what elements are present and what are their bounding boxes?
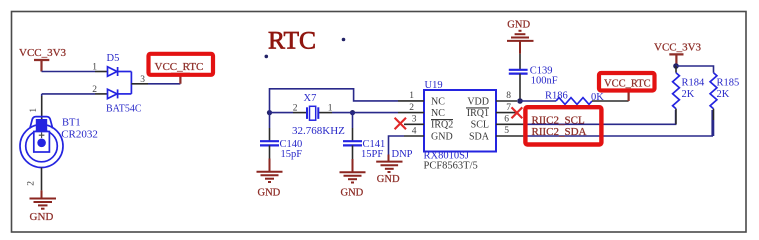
svg-text:3: 3 xyxy=(140,75,145,85)
svg-text:2: 2 xyxy=(409,103,414,113)
wire C140 to ground xyxy=(269,145,271,158)
pin 3 stub xyxy=(404,123,424,125)
resistor R186 xyxy=(556,98,592,105)
wire right node to U19 pin2 xyxy=(353,112,399,114)
crystal pin 2 stub xyxy=(293,112,307,114)
overbar IRQ2 xyxy=(431,119,453,121)
power port VCC_RTC (right) xyxy=(622,91,637,101)
net wire RIIC2_SDA xyxy=(523,110,712,136)
wire top gnd to C139 xyxy=(519,54,521,70)
U19 IC body xyxy=(424,90,496,152)
svg-text:VCC_RTC: VCC_RTC xyxy=(155,61,204,73)
crystal net: left junction node xyxy=(267,110,272,115)
wire pin4 to ground xyxy=(389,136,405,155)
power port VCC_3V3 (right) xyxy=(669,54,683,66)
battery center dot xyxy=(37,139,46,148)
R185 lead to SDA xyxy=(713,120,715,136)
pin 6 stub xyxy=(496,123,523,125)
wire pin3 to VCC_RTC xyxy=(148,83,180,85)
wire R186 to VCC_RTC xyxy=(592,100,629,102)
junction node pin8/C139 xyxy=(517,98,523,104)
pin 8 stub xyxy=(496,100,517,102)
junction node VCC rail xyxy=(673,63,679,69)
resistor R184 xyxy=(673,73,680,109)
battery clip (filled) xyxy=(36,119,47,134)
svg-text:2: 2 xyxy=(92,85,97,95)
svg-text:2K: 2K xyxy=(682,89,695,100)
svg-text:2K: 2K xyxy=(717,89,730,100)
red highlight box around RIIC2 labels xyxy=(525,107,601,144)
svg-text:3: 3 xyxy=(412,115,417,125)
svg-text:GND: GND xyxy=(258,187,281,198)
pin 1 stub of D5 xyxy=(95,71,108,73)
svg-text:CR2032: CR2032 xyxy=(61,128,98,140)
svg-text:1: 1 xyxy=(328,104,333,114)
svg-text:VCC_RTC: VCC_RTC xyxy=(604,79,651,90)
svg-text:1: 1 xyxy=(92,63,97,73)
svg-text:RTC: RTC xyxy=(268,26,316,55)
svg-text:GND: GND xyxy=(507,20,530,31)
svg-text:NC: NC xyxy=(431,108,445,119)
svg-text:GND: GND xyxy=(377,174,400,185)
crystal pin 1 stub xyxy=(318,112,332,114)
diode D5 (dual common-cathode BAT54C) xyxy=(108,67,132,99)
wire C141 right node down xyxy=(352,113,354,128)
R185 lower lead xyxy=(713,109,715,120)
wire pin2 to D5 xyxy=(42,93,95,95)
capacitor C141 xyxy=(343,141,362,145)
net wire RIIC2_SCL xyxy=(523,110,675,124)
plus mark xyxy=(39,132,45,138)
svg-text:GND: GND xyxy=(431,131,453,142)
wire C140 left node down xyxy=(269,113,271,128)
svg-text:C140: C140 xyxy=(280,139,303,150)
svg-text:2: 2 xyxy=(27,181,37,186)
pin 5 stub xyxy=(496,135,523,137)
wire left node to crystal xyxy=(270,112,294,114)
svg-text:VDD: VDD xyxy=(467,96,489,107)
pin 4 stub xyxy=(404,135,424,137)
pin 2 stub of D5 xyxy=(95,93,108,95)
svg-text:5: 5 xyxy=(504,126,509,136)
svg-text:7: 7 xyxy=(506,103,511,113)
wire D5 pin2 down to battery xyxy=(41,94,43,96)
svg-text:DNP: DNP xyxy=(392,149,413,160)
inverted ground symbol (top, C139) xyxy=(507,31,534,54)
crystal net: right junction node xyxy=(350,110,355,115)
svg-text:BAT54C: BAT54C xyxy=(106,103,142,114)
svg-text:RIIC2_SDA: RIIC2_SDA xyxy=(532,126,587,138)
svg-text:15pF: 15pF xyxy=(281,149,303,160)
ground symbol (U19 pin4) xyxy=(376,155,402,173)
wire C139 down to pin8 net xyxy=(519,74,521,101)
svg-text:PCF8563T/5: PCF8563T/5 xyxy=(424,161,478,172)
wire VCC rail to R185 xyxy=(676,66,714,73)
capacitor C139 xyxy=(509,70,528,74)
svg-text:8: 8 xyxy=(506,91,511,101)
svg-text:NC: NC xyxy=(431,96,445,107)
R184 lower lead xyxy=(675,109,677,125)
C141 top pin stub xyxy=(352,128,354,141)
svg-text:2: 2 xyxy=(293,104,298,114)
ground symbol (C140) xyxy=(257,159,283,183)
pin 2 stub xyxy=(398,112,424,114)
svg-text:IRQ1: IRQ1 xyxy=(467,108,489,119)
svg-text:1: 1 xyxy=(409,91,414,101)
C140 top pin stub xyxy=(269,128,271,141)
battery pin 1 stub xyxy=(41,96,43,120)
ground symbol (battery) xyxy=(30,190,57,208)
svg-text:VCC_3V3: VCC_3V3 xyxy=(19,47,67,59)
battery contact box xyxy=(34,132,50,153)
ground symbol (C141) xyxy=(340,159,366,183)
bypass wire left node up over crystal to U19 pin1 xyxy=(270,89,399,113)
resistor R185 xyxy=(710,73,717,109)
svg-text:C141: C141 xyxy=(363,139,386,150)
wire crystal to right node xyxy=(332,112,353,114)
svg-text:6: 6 xyxy=(504,114,509,124)
U19 pin names xyxy=(431,96,490,142)
wire pin8 node to R186 xyxy=(520,100,556,102)
stray junction dot xyxy=(265,55,269,59)
svg-text:15PF: 15PF xyxy=(361,149,383,160)
red highlight box around VCC_RTC xyxy=(149,54,214,75)
capacitor C140 xyxy=(260,141,279,145)
wire C141 to ground xyxy=(352,145,354,159)
svg-text:32.768KHZ: 32.768KHZ xyxy=(292,125,345,137)
svg-text:1: 1 xyxy=(29,108,39,113)
stray junction dot xyxy=(342,38,346,42)
wire VCC node down to R184 xyxy=(675,66,677,73)
svg-text:GND: GND xyxy=(30,211,54,223)
wire pin1 to D5 xyxy=(42,71,96,73)
svg-text:IRQ2: IRQ2 xyxy=(431,120,453,131)
power port VCC_3V3 (left) xyxy=(34,60,49,72)
crystal X7 xyxy=(307,106,318,120)
wire battery to GND xyxy=(41,168,43,191)
no-connect X on pin 3 xyxy=(395,118,406,129)
pin 3 stub of D5 xyxy=(131,83,148,85)
svg-text:D5: D5 xyxy=(107,53,120,64)
svg-text:GND: GND xyxy=(341,187,364,198)
red highlight box around VCC_RTC (right) xyxy=(599,73,655,91)
svg-text:R184: R184 xyxy=(682,77,706,88)
svg-text:X7: X7 xyxy=(304,93,317,104)
svg-text:4: 4 xyxy=(412,127,417,137)
pin 7 stub xyxy=(496,112,516,114)
power port VCC_RTC (left) xyxy=(171,74,190,84)
svg-text:100nF: 100nF xyxy=(531,76,558,87)
no-connect X on pin 7 xyxy=(512,107,523,118)
svg-text:SCL: SCL xyxy=(471,120,489,131)
svg-text:BT1: BT1 xyxy=(62,118,81,129)
svg-text:R186: R186 xyxy=(545,90,568,101)
pin 1 stub xyxy=(398,100,424,102)
overbar IRQ1 xyxy=(466,107,489,109)
svg-text:SDA: SDA xyxy=(469,131,490,142)
svg-text:RIIC2_SCL: RIIC2_SCL xyxy=(532,114,585,126)
svg-text:VCC_3V3: VCC_3V3 xyxy=(654,41,702,53)
battery BT1 coin-cell holder xyxy=(20,117,63,168)
svg-text:U19: U19 xyxy=(425,80,443,91)
svg-text:R185: R185 xyxy=(717,77,740,88)
